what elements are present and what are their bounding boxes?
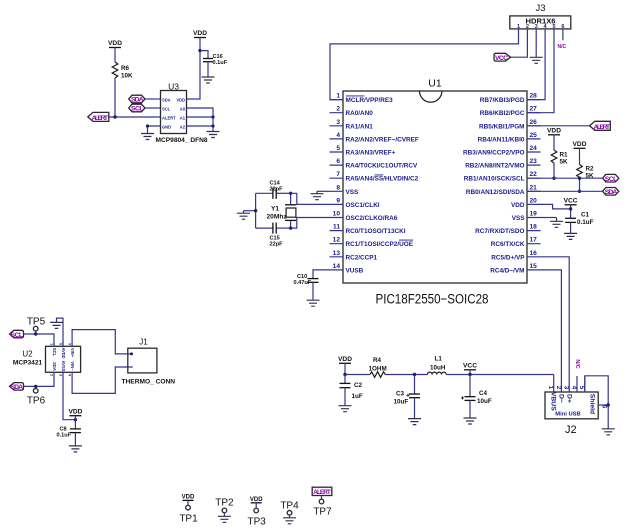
svg-text:AVDD: AVDD	[61, 347, 66, 358]
svg-text:21: 21	[530, 184, 538, 191]
wire U2 VDD pin to VDD	[63, 378, 75, 420]
wire J3.4 to U1 pin28	[527, 29, 545, 100]
junction VDD/C8	[74, 418, 77, 421]
svg-text:C1: C1	[581, 212, 590, 219]
junction shield/pin6	[607, 403, 610, 406]
junction A1	[211, 115, 214, 118]
svg-text:HDR1X6: HDR1X6	[526, 19, 556, 26]
svg-text:MCP3421: MCP3421	[13, 360, 43, 367]
svg-text:VDD: VDD	[547, 128, 561, 135]
svg-text:10uH: 10uH	[430, 365, 446, 372]
svg-text:10: 10	[333, 211, 341, 218]
power VCC (C1)	[564, 198, 578, 218]
svg-text:SDA: SDA	[52, 362, 57, 371]
ground (J3.3)	[530, 57, 543, 63]
svg-text:VDD: VDD	[182, 495, 195, 501]
power VDD (rail)	[338, 356, 352, 375]
svg-text:17: 17	[530, 237, 538, 244]
U1 right pin numbers	[530, 93, 538, 270]
svg-text:RB5/KBI1/PGM: RB5/KBI1/PGM	[479, 123, 524, 130]
svg-text:J2: J2	[565, 424, 577, 436]
ground (C1)	[564, 233, 577, 239]
wire ALERT to U3	[109, 116, 161, 118]
wire U1 pin22 SCL	[527, 177, 603, 179]
svg-text:J1: J1	[139, 338, 148, 347]
svg-text:SCL: SCL	[131, 106, 144, 113]
svg-text:ALERT: ALERT	[92, 115, 109, 122]
junction crystal bottom	[289, 226, 292, 229]
capacitor C16	[200, 51, 228, 77]
junction TP6/SDA	[34, 385, 37, 388]
svg-text:RC2/CCP1: RC2/CCP1	[346, 254, 378, 261]
svg-text:VDD: VDD	[250, 497, 263, 503]
net label N/C (J3.6)	[558, 29, 567, 50]
svg-text:RB0/AN12/SDI/SDA: RB0/AN12/SDI/SDA	[466, 189, 525, 196]
svg-text:22: 22	[530, 171, 538, 178]
svg-text:7: 7	[336, 171, 340, 178]
svg-text:RC7/RX/DT/SDO: RC7/RX/DT/SDO	[475, 228, 524, 235]
svg-text:U3: U3	[168, 82, 179, 92]
svg-text:11: 11	[333, 224, 340, 231]
svg-text:27: 27	[530, 106, 538, 113]
svg-text:TP6: TP6	[27, 396, 46, 407]
connector J3 HDR1X6	[510, 3, 571, 30]
ground (U3 address pins)	[207, 132, 220, 138]
svg-text:0.1uF: 0.1uF	[213, 60, 228, 66]
svg-text:A2: A2	[180, 124, 186, 129]
svg-text:16: 16	[530, 250, 538, 257]
junction TP5/SCL	[34, 332, 37, 335]
wire crystal left loop	[255, 193, 257, 228]
capacitor C2	[340, 375, 363, 406]
wire U1 pin21 SDA	[527, 190, 603, 192]
IC U2 MCP3421	[13, 342, 81, 378]
svg-text:23: 23	[530, 158, 538, 165]
svg-text:VIN+: VIN+	[70, 348, 75, 358]
capacitor C8	[57, 420, 81, 446]
testpoint TP2	[215, 498, 234, 523]
svg-text:0.47uF: 0.47uF	[294, 280, 312, 286]
svg-text:A1: A1	[180, 115, 186, 120]
wire U2 SDA to port	[24, 378, 54, 387]
wire U1 pin19 to ground	[541, 217, 557, 219]
svg-text:TP7: TP7	[313, 507, 332, 518]
svg-text:1: 1	[50, 343, 54, 345]
port SCL (U2)	[10, 330, 24, 339]
svg-text:R2: R2	[586, 166, 595, 173]
svg-text:MCLR/VPP/RE3: MCLR/VPP/RE3	[346, 97, 394, 104]
resistor R2	[577, 165, 594, 180]
svg-text:2: 2	[336, 106, 340, 113]
connector J2 Mini USB	[545, 376, 607, 436]
svg-text:RC6/TX/CK: RC6/TX/CK	[491, 241, 525, 248]
junction R6/ALERT	[113, 115, 116, 118]
junction VDD/C2	[343, 373, 346, 376]
svg-text:12: 12	[333, 237, 341, 244]
wire U1 pin15 to J2 D-	[541, 270, 562, 392]
svg-text:28: 28	[530, 93, 538, 100]
svg-text:1: 1	[336, 93, 340, 100]
svg-text:2: 2	[555, 386, 562, 390]
svg-text:VDD: VDD	[176, 97, 185, 102]
junction R1/SCL	[552, 177, 555, 180]
ground (C3)	[408, 419, 421, 425]
wire U1 pin26 to ALERT	[527, 125, 589, 127]
junction R2/SDA	[578, 190, 581, 193]
power VDD (C8)	[68, 409, 82, 420]
svg-text:VSS: VSS	[346, 189, 360, 196]
svg-text:RB3/AN9/CCP2/VPO: RB3/AN9/CCP2/VPO	[463, 150, 524, 157]
svg-text:RC1/T1OSI/CCP2/UOE: RC1/T1OSI/CCP2/UOE	[346, 241, 414, 248]
svg-text:6: 6	[336, 158, 340, 165]
power VDD (R6)	[108, 40, 122, 62]
svg-text:RA2/AN2/VREF−/CVREF: RA2/AN2/VREF−/CVREF	[346, 136, 419, 143]
junction C3	[413, 373, 416, 376]
svg-text:SDA: SDA	[11, 384, 24, 391]
svg-text:8: 8	[336, 184, 340, 191]
svg-text:19: 19	[530, 211, 538, 218]
svg-text:RB7/KBI3/PGD: RB7/KBI3/PGD	[480, 97, 525, 104]
junction VCC/C4	[468, 373, 471, 376]
wire U3 A1	[187, 116, 214, 118]
svg-text:10uF: 10uF	[394, 399, 409, 406]
wire J3.2 to VCC	[511, 29, 528, 57]
ground (J2 shield)	[602, 429, 615, 435]
svg-text:VCC: VCC	[463, 363, 477, 370]
wire VCC node to J2 VBUS	[553, 375, 555, 393]
ground (crystal)	[237, 211, 250, 220]
svg-text:VIN−: VIN−	[70, 361, 75, 371]
svg-text:ALERT: ALERT	[162, 115, 176, 120]
svg-text:Mini USB: Mini USB	[555, 412, 580, 418]
junction R2/SCL crossing	[578, 177, 581, 180]
testpoint TP3	[248, 497, 267, 528]
svg-text:14: 14	[333, 263, 341, 270]
ground (U3 GND)	[141, 134, 154, 140]
ground (C16)	[202, 77, 215, 83]
svg-text:VCC: VCC	[564, 198, 578, 205]
svg-text:3: 3	[59, 374, 63, 376]
wire U2 VIN- to J1 pin2	[72, 367, 128, 393]
capacitor C14	[256, 181, 291, 199]
svg-text:0.1uF: 0.1uF	[57, 433, 72, 439]
wire U3 A2	[187, 125, 214, 127]
testpoint TP4	[280, 501, 299, 524]
svg-text:13: 13	[333, 250, 341, 257]
svg-text:TP3: TP3	[248, 517, 267, 528]
svg-text:GND: GND	[162, 124, 171, 129]
wire J2.5 shield to ground	[585, 376, 608, 429]
svg-text:U2: U2	[22, 350, 33, 359]
svg-text:1uF: 1uF	[352, 393, 363, 400]
resistor R1	[551, 150, 568, 178]
svg-text:VDD: VDD	[338, 356, 352, 363]
resistor R6	[112, 62, 133, 80]
svg-text:10K: 10K	[121, 73, 133, 80]
svg-text:5: 5	[578, 386, 585, 390]
U1 left pin names	[346, 96, 419, 275]
svg-text:SCL: SCL	[11, 332, 24, 339]
capacitor C3	[394, 375, 421, 419]
svg-text:ALERT: ALERT	[313, 489, 331, 496]
power VDD (R1)	[547, 128, 561, 151]
wire U3 A0	[187, 108, 214, 131]
wire OSC1 to crystal	[291, 193, 330, 204]
svg-text:R1: R1	[560, 152, 569, 159]
testpoint TP5	[27, 317, 46, 335]
wire J3.3 to ground	[535, 29, 537, 57]
testpoint TP1	[179, 495, 198, 525]
resistor R4	[369, 357, 387, 377]
junction crystal top	[289, 192, 292, 195]
wire R4 to C3 node	[385, 374, 427, 376]
junction U3 GND	[146, 124, 149, 127]
svg-text:24: 24	[530, 145, 538, 152]
svg-text:D−: D−	[558, 394, 565, 403]
svg-text:VDD: VDD	[68, 409, 82, 416]
port SDA (U1)	[603, 188, 619, 197]
wire L1 to VCC node	[446, 374, 554, 376]
ground (C2)	[339, 406, 352, 412]
svg-text:VDD: VDD	[193, 30, 207, 37]
ground (U1 pin8)	[311, 191, 324, 199]
svg-text:A0: A0	[180, 106, 186, 111]
U1 left pin stubs 1-14	[330, 100, 344, 270]
wire VDD to R4	[345, 374, 370, 376]
svg-text:RB1/AN10/SCK/SCL: RB1/AN10/SCK/SCL	[464, 176, 525, 183]
svg-text:U1: U1	[428, 78, 442, 90]
svg-text:MCP9804_ DFN8: MCP9804_ DFN8	[156, 137, 208, 144]
svg-text:R4: R4	[373, 357, 382, 364]
power VCC (J3)	[494, 53, 511, 62]
port SCL (U1)	[603, 174, 619, 183]
svg-text:5: 5	[68, 343, 72, 345]
svg-text:25: 25	[530, 132, 538, 139]
svg-text:Y1: Y1	[271, 206, 279, 213]
svg-text:VCC: VCC	[495, 55, 508, 62]
svg-text:10uF: 10uF	[477, 398, 492, 405]
svg-text:RC5/D+/VP: RC5/D+/VP	[491, 254, 525, 261]
svg-text:ALERT: ALERT	[594, 124, 611, 131]
wire J2.6 stub	[598, 404, 608, 406]
port SCL (U3)	[129, 104, 145, 113]
wire VDD to U3 VDD pin	[187, 38, 201, 100]
wire R6 to ALERT net	[114, 78, 116, 117]
svg-text:9: 9	[336, 197, 340, 204]
svg-text:SCL: SCL	[605, 176, 618, 183]
svg-text:4: 4	[336, 132, 340, 139]
svg-text:D+: D+	[565, 394, 572, 403]
svg-text:18: 18	[530, 224, 538, 231]
svg-text:26: 26	[530, 119, 538, 126]
svg-text:VBUS: VBUS	[549, 392, 556, 411]
svg-text:VDD: VDD	[511, 202, 525, 209]
svg-text:OSC1/CLKI: OSC1/CLKI	[346, 202, 380, 209]
svg-text:L1: L1	[435, 356, 443, 363]
wire OSC2 to crystal	[291, 218, 330, 229]
svg-text:3: 3	[563, 386, 570, 390]
svg-text:0.1uF: 0.1uF	[577, 219, 594, 226]
port SDA (U3)	[129, 95, 145, 104]
svg-text:SDA: SDA	[131, 97, 144, 104]
svg-text:VDD: VDD	[108, 40, 122, 47]
junction loop/ground	[254, 209, 257, 212]
svg-text:THERMO_ CONN: THERMO_ CONN	[122, 379, 176, 386]
svg-text:SCL: SCL	[52, 348, 57, 357]
svg-text:Shield: Shield	[588, 394, 595, 414]
svg-text:5K: 5K	[560, 159, 569, 166]
wire U1 VSS pin8	[317, 190, 330, 192]
svg-text:VDD: VDD	[573, 141, 587, 148]
wire U1 pin16 to J2 D+	[541, 257, 570, 392]
svg-text:OSC2/CLKO/RA6: OSC2/CLKO/RA6	[346, 215, 398, 222]
U1 right pin stubs 15-28	[527, 100, 541, 270]
svg-text:22pF: 22pF	[270, 186, 284, 192]
inductor L1	[427, 356, 446, 375]
ground (C10)	[307, 300, 320, 306]
crystal Y1	[267, 193, 297, 228]
svg-text:1: 1	[547, 386, 554, 390]
svg-text:SCL: SCL	[162, 106, 171, 111]
wire J3.1 to U1 pin1	[330, 29, 519, 100]
svg-text:VUSB: VUSB	[346, 267, 364, 274]
U1 right pin names	[463, 97, 525, 274]
ground (U2 VSS)	[50, 322, 63, 328]
junction A2	[211, 124, 214, 127]
ground (U1 pin19)	[550, 218, 563, 228]
svg-text:TP1: TP1	[179, 514, 198, 525]
port ALERT	[88, 112, 109, 122]
svg-text:RA1/AN1: RA1/AN1	[346, 123, 374, 130]
svg-text:2: 2	[50, 374, 54, 376]
capacitor C4	[461, 375, 492, 418]
power VCC (rail)	[463, 363, 477, 375]
svg-text:C4: C4	[479, 390, 488, 397]
svg-text:5: 5	[336, 145, 340, 152]
connector J1 THERMO_CONN	[122, 338, 176, 386]
wire SCL port to U2	[24, 334, 55, 342]
wire U2 VIN+ to J1 pin1	[72, 330, 128, 354]
power VDD (R2)	[573, 141, 587, 165]
svg-text:VSS: VSS	[512, 215, 526, 222]
svg-text:AVSS: AVSS	[61, 361, 66, 372]
svg-text:N/C: N/C	[574, 359, 580, 368]
svg-text:PIC18F2550−SOIC28: PIC18F2550−SOIC28	[376, 292, 489, 307]
capacitor C1	[565, 212, 593, 234]
ground (C8)	[69, 446, 82, 452]
svg-text:RC4/D−/VM: RC4/D−/VM	[490, 267, 524, 274]
svg-text:6: 6	[59, 343, 63, 345]
svg-text:RA0/AN0: RA0/AN0	[346, 110, 374, 117]
testpoint TP7	[312, 487, 332, 517]
svg-text:20: 20	[530, 197, 538, 204]
svg-text:RA5/AN4/SS/HLVDIN/C2: RA5/AN4/SS/HLVDIN/C2	[346, 176, 419, 183]
svg-text:4: 4	[570, 386, 577, 390]
IC U3 MCP9804	[156, 82, 208, 145]
port SDA (U2)	[10, 383, 24, 392]
wire U1 pin20 to VCC	[541, 204, 571, 209]
svg-text:RA3/AN3/VREF+: RA3/AN3/VREF+	[346, 150, 396, 157]
svg-text:C3: C3	[396, 391, 405, 398]
capacitor C10	[294, 270, 330, 300]
wire J3.5 to U1 pin27	[527, 29, 554, 113]
junction VCC/pin20	[569, 207, 572, 210]
IC U1 PIC18F2550-SOIC28	[343, 78, 527, 307]
svg-text:SDA: SDA	[162, 97, 171, 102]
svg-text:15: 15	[530, 263, 538, 270]
svg-text:1OHM: 1OHM	[369, 366, 387, 373]
capacitor C15	[256, 223, 291, 248]
svg-text:20Mhz: 20Mhz	[267, 214, 288, 221]
svg-text:RB6/KBI2/PGC: RB6/KBI2/PGC	[480, 110, 525, 117]
svg-text:R6: R6	[121, 65, 130, 72]
svg-text:22pF: 22pF	[270, 241, 284, 247]
svg-text:3: 3	[336, 119, 340, 126]
wire U3 GND pin	[148, 126, 161, 133]
junction C16 tap	[198, 49, 201, 52]
wire R2 to SDA	[579, 178, 581, 191]
svg-text:TP2: TP2	[215, 498, 234, 509]
svg-text:RA4/T0CKI/C1OUT/RCV: RA4/T0CKI/C1OUT/RCV	[346, 163, 418, 170]
wire U2 VSS to ground	[57, 318, 64, 346]
wire SDA port to U3	[145, 98, 161, 100]
U1 left pin numbers	[333, 93, 341, 270]
svg-text:C2: C2	[354, 382, 363, 389]
power VDD (U3)	[193, 30, 207, 38]
wire loop to ground	[244, 210, 256, 212]
ground (C4)	[464, 418, 477, 424]
svg-text:J3: J3	[535, 3, 545, 14]
testpoint TP6	[27, 386, 46, 406]
svg-text:RB2/AN8/INT2/VMO: RB2/AN8/INT2/VMO	[465, 163, 524, 170]
port ALERT (U1)	[590, 121, 611, 131]
svg-text:RB4/AN11/KBI0: RB4/AN11/KBI0	[478, 136, 525, 143]
svg-text:RC0/T1OSO/T13CKI: RC0/T1OSO/T13CKI	[346, 228, 406, 235]
svg-text:N/C: N/C	[558, 44, 567, 50]
wire SCL port to U3	[145, 107, 161, 109]
svg-text:SDA: SDA	[605, 189, 618, 196]
